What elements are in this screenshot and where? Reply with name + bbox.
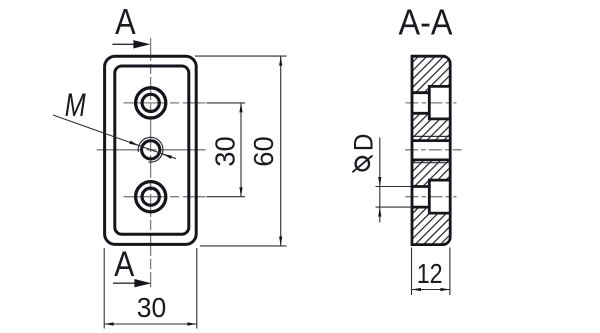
dim 60 (height) dimension line [280,56,282,246]
plate inner outline [115,66,189,234]
dim 60 arrow down [279,236,282,246]
section bottom hole centerline [406,196,457,198]
svg-text:30: 30 [209,136,240,167]
top hole bore circle [142,94,159,111]
dim OD arrow up [378,207,381,217]
top bore outline [412,93,429,114]
dim 30 (width) dimension line [104,323,197,325]
dim 30 (hole spacing) bottom extension line [207,196,246,198]
svg-text:30: 30 [137,292,167,323]
svg-text:12: 12 [417,258,443,289]
svg-text:A: A [114,244,134,284]
dim 12 arrow left [412,288,422,291]
top hole counterbore cavity [429,86,450,119]
middle tapped hole minor circle [142,141,160,159]
dim 30 (width) right extension line [196,248,198,329]
top hole bore cavity [412,93,429,114]
bottom counterbore outline [429,180,450,213]
middle hole thick lines [412,141,450,160]
dim 30 (hole spacing) top extension line [207,102,246,104]
dim OD arrow down [378,177,381,187]
section arrow top shaft [112,43,136,45]
dim 30 (hole spacing) arrow up [239,103,242,113]
bottom hole bore cavity [412,187,429,208]
leader arrowhead upper [129,141,139,146]
dim 30 (width) left extension line [103,248,105,329]
svg-text:M: M [65,87,86,123]
svg-text:60: 60 [248,136,279,167]
bottom hole counterbore cavity [429,180,450,213]
section arrow bottom shaft [113,282,137,284]
bottom hole counterbore circle [136,182,166,212]
dim 60 arrow up [279,56,282,66]
dim OD dimension line [379,138,381,223]
middle hole horizontal centerline [97,149,206,151]
svg-text:D: D [348,134,378,152]
dim OD upper extension line [376,186,412,188]
dim 12 dimension line [412,289,450,291]
dim 30 (hole spacing) dimension line [240,103,242,197]
dim 12 arrow right [440,288,450,291]
section body outline [412,56,450,244]
svg-text:A: A [115,1,136,42]
bottom hole bore circle [142,188,159,205]
dim 30 (width) arrow right [187,322,197,325]
dim 12 right extension line [449,248,451,296]
middle tapped hole cavity [412,141,450,160]
section top hole centerline [406,102,457,104]
vertical centerline of plate [150,38,152,287]
section arrow top head [133,40,150,48]
dim 60 (height) bottom extension line [200,245,287,247]
bottom bore outline [412,187,429,208]
dim OD lower extension line [376,206,412,208]
dim 60 (height) top extension line [195,55,287,57]
top counterbore outline [429,86,450,119]
section middle hole centerline [405,149,462,151]
svg-text:A-A: A-A [399,1,453,42]
dim 30 (width) arrow left [104,322,114,325]
section arrow bottom head [134,279,151,287]
section body hatched [412,56,450,244]
middle tapped hole thread arc [138,137,163,162]
dim OD diameter symbol circle [356,157,369,170]
dim 12 left extension line [411,248,413,296]
dim 30 (hole spacing) arrow down [239,187,242,197]
dim OD diameter symbol slash [352,156,372,173]
leader line for M [53,115,176,159]
leader arrowhead lower [162,154,172,159]
middle thread major thin line lower [412,162,450,164]
middle thread major thin line upper [412,135,450,137]
top hole counterbore circle [136,88,166,118]
top hole horizontal centerline [124,102,206,104]
bottom hole horizontal centerline [124,196,206,198]
plate outer outline [105,56,197,244]
